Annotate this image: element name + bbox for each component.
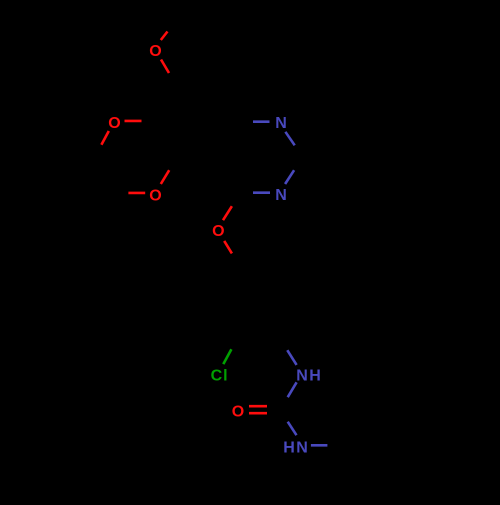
svg-text:N: N <box>296 439 308 456</box>
svg-text:O: O <box>232 403 244 420</box>
svg-text:N: N <box>296 367 308 384</box>
svg-text:H: H <box>283 439 295 456</box>
svg-text:N: N <box>275 187 287 204</box>
svg-text:C: C <box>211 368 223 385</box>
svg-text:O: O <box>149 43 161 60</box>
svg-text:N: N <box>275 115 287 132</box>
svg-text:O: O <box>149 187 161 204</box>
svg-text:O: O <box>212 223 224 240</box>
svg-text:H: H <box>309 367 321 384</box>
svg-text:O: O <box>108 115 120 132</box>
svg-text:l: l <box>223 368 227 385</box>
